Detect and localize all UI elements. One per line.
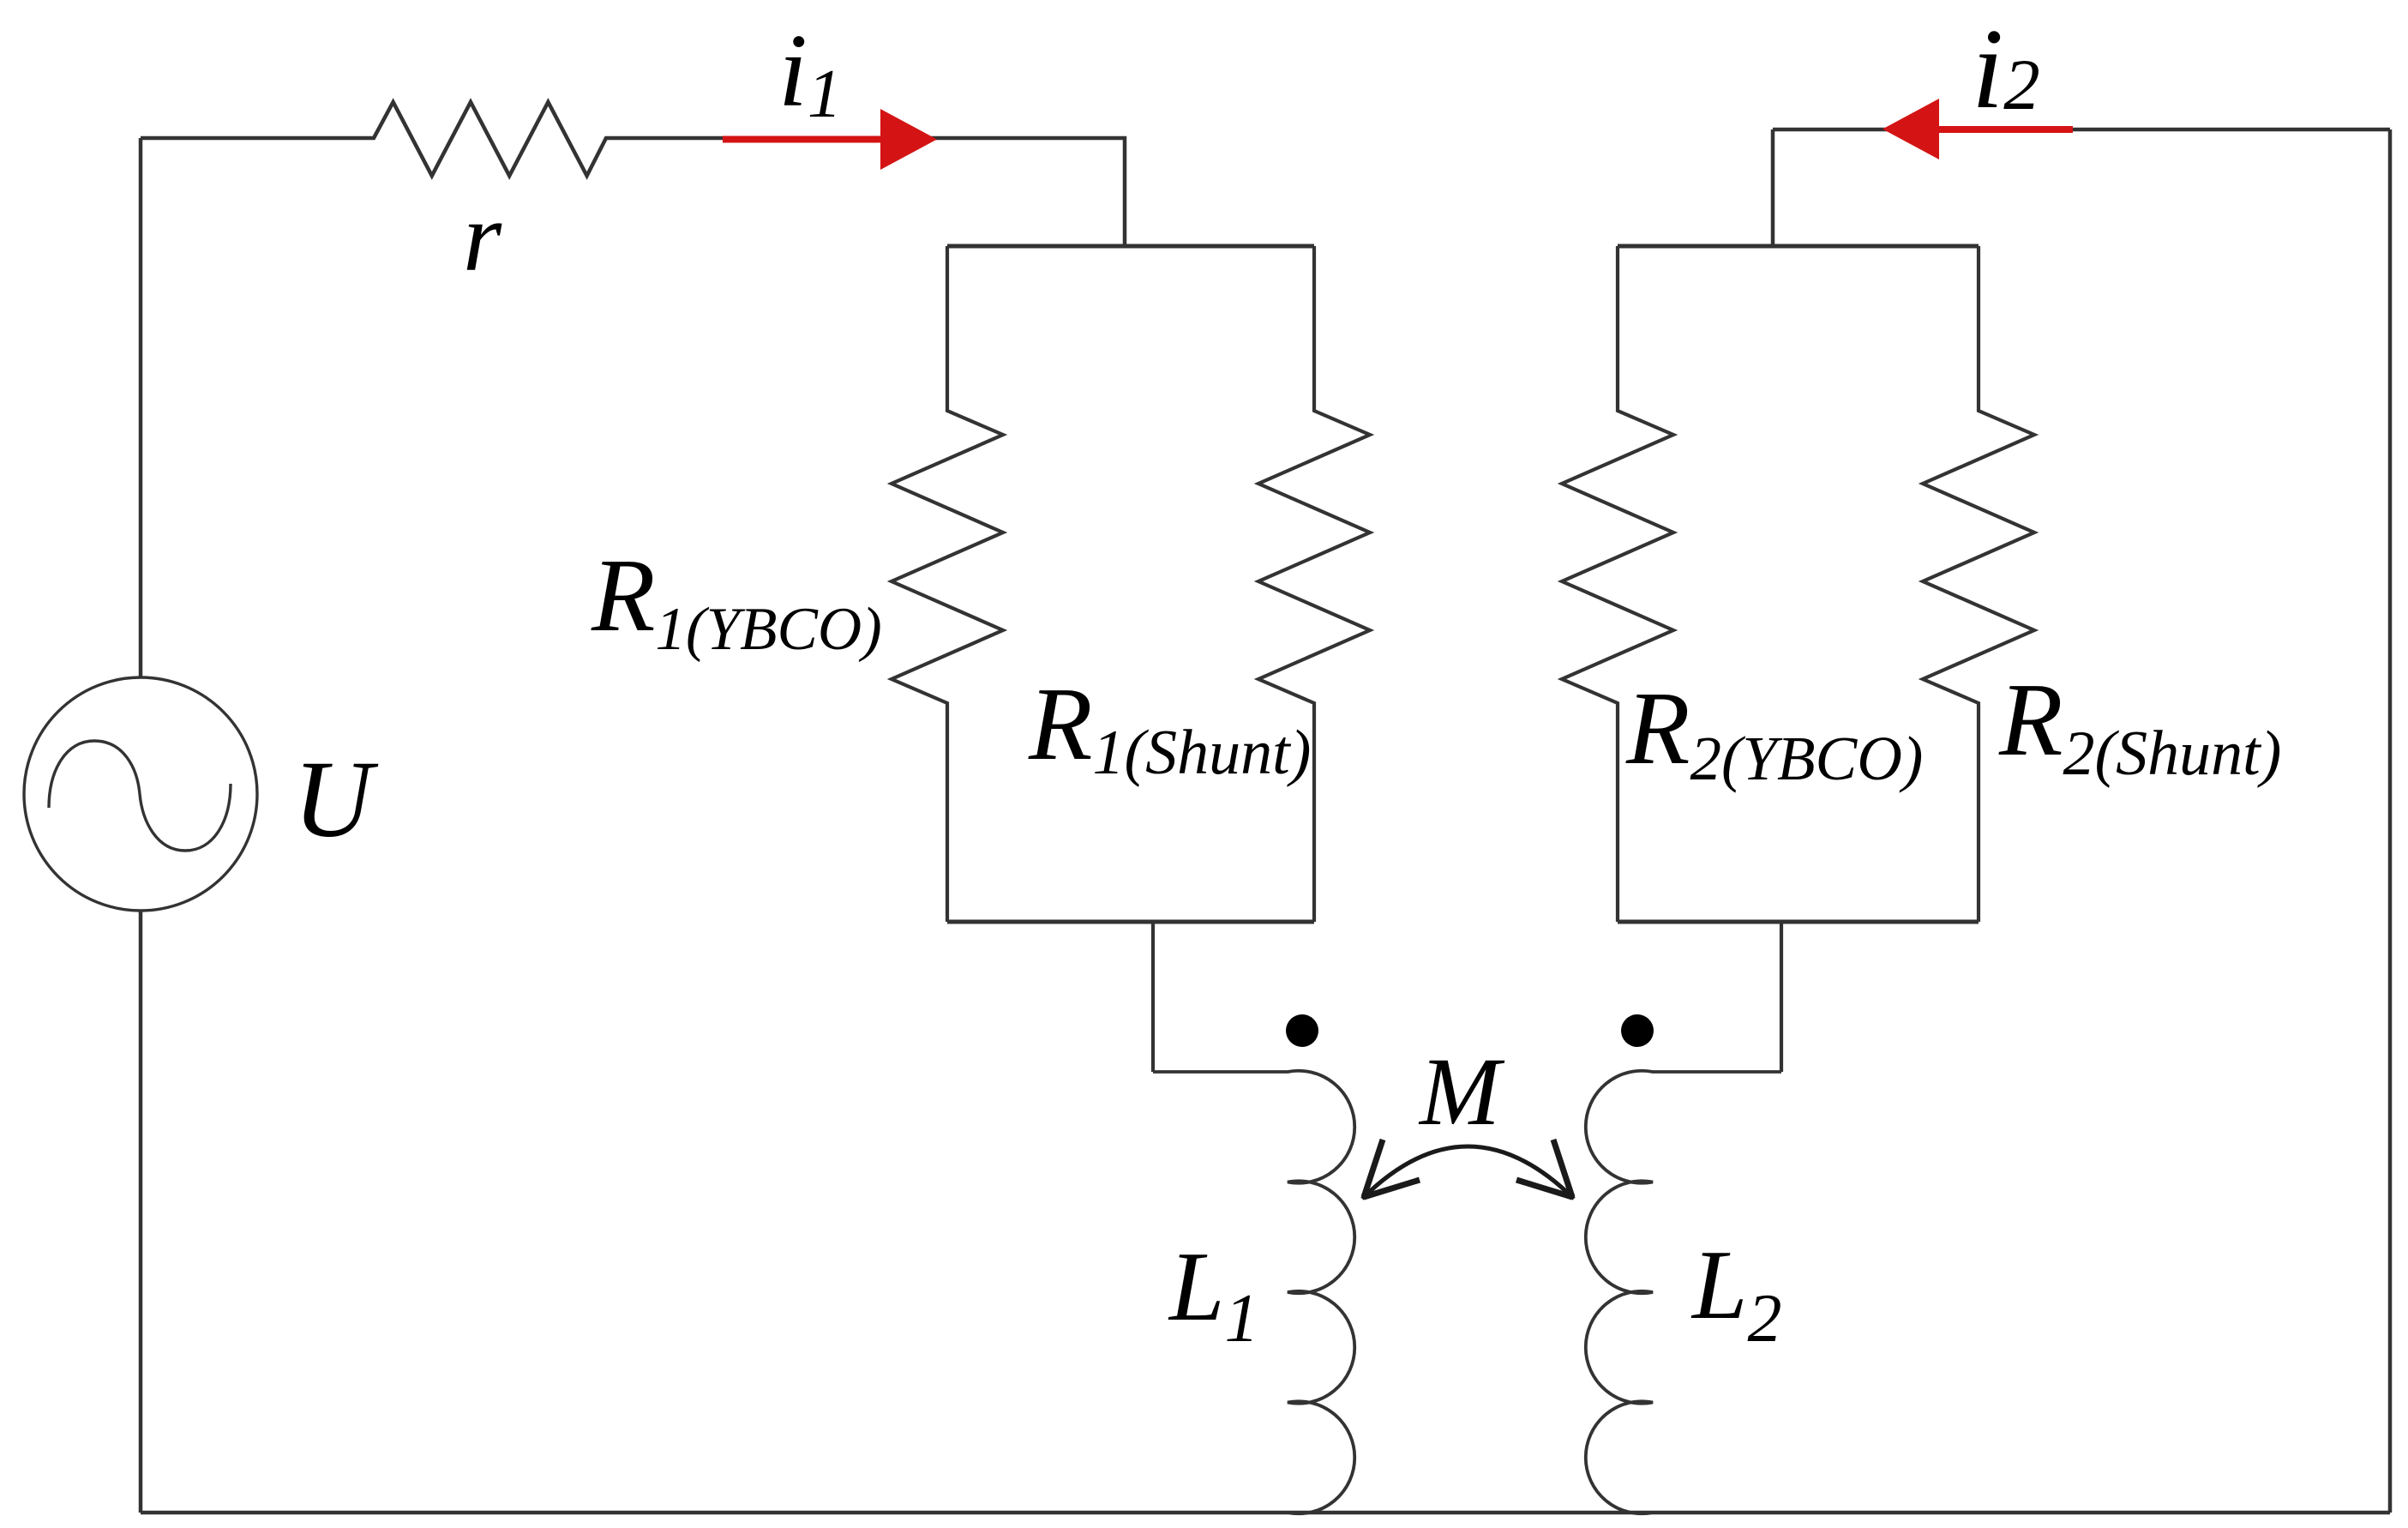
svg-text:U: U (293, 738, 379, 860)
svg-text:r: r (463, 183, 502, 292)
svg-text:M: M (1418, 1038, 1505, 1146)
